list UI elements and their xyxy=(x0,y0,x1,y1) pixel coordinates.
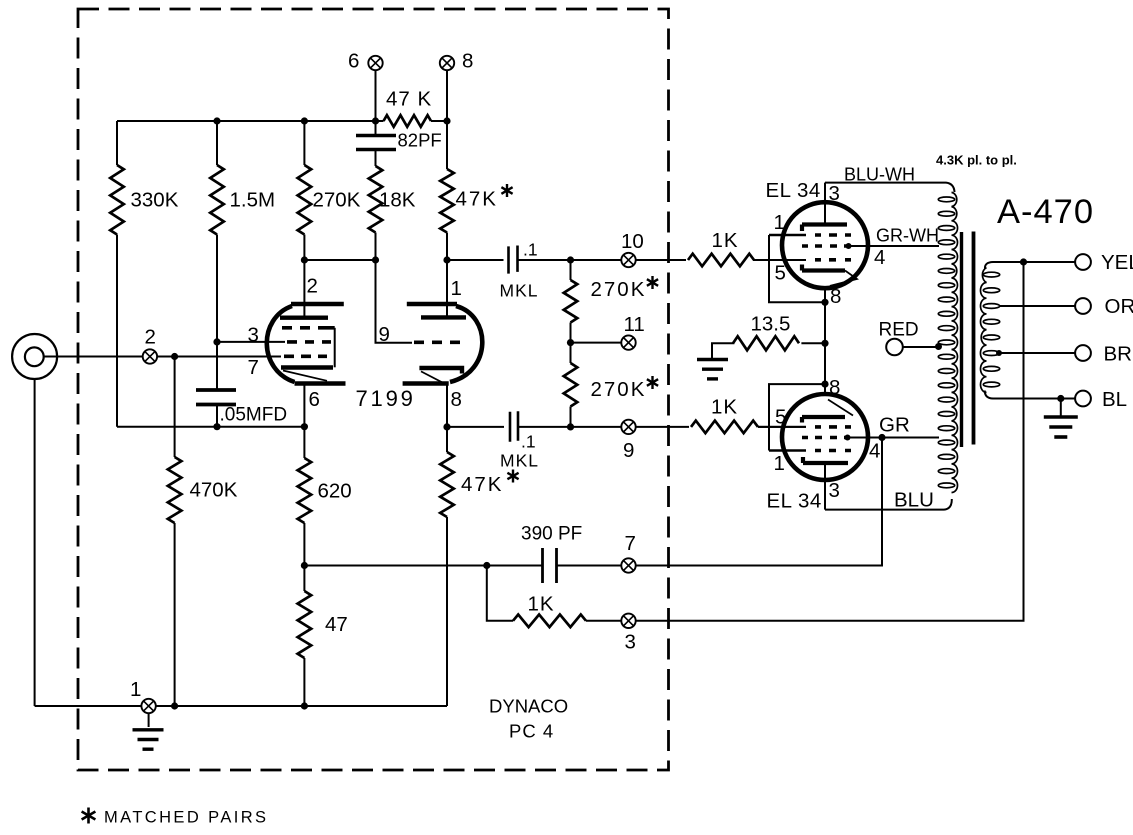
wire ground bus xyxy=(35,705,447,707)
pin 4 junction dot (lower) xyxy=(845,435,851,441)
svg-text:13.5: 13.5 xyxy=(751,313,791,336)
wire plate row: pin 2 lead xyxy=(303,260,305,318)
wire pin 8 lead xyxy=(446,384,448,427)
svg-text:330K: 330K xyxy=(131,189,179,212)
resistor 47K (top) xyxy=(384,115,432,127)
svg-text:MKL: MKL xyxy=(500,281,539,301)
transformer A-470 primary turns xyxy=(938,197,954,202)
junction dot (447.0,121.0) xyxy=(443,117,450,124)
wire EL34 lower pin 3 stem xyxy=(824,463,826,510)
svg-text:MKL: MKL xyxy=(500,451,539,471)
tube 7199 pentode envelope top xyxy=(291,302,344,307)
input jack J1 center pin xyxy=(25,347,44,366)
junction dot (486.8,565.5) xyxy=(483,562,490,569)
wire 270K bottom lead xyxy=(303,235,305,261)
junction dot (304.4,426.7) xyxy=(301,423,308,430)
junction dot (825.0,343.3) xyxy=(821,340,828,347)
tube 7199 pentode grid row 3 xyxy=(284,354,327,358)
svg-text:RED: RED xyxy=(879,320,919,341)
svg-text:BR: BR xyxy=(1104,343,1132,366)
svg-text:620: 620 xyxy=(318,480,352,503)
capacitor 390PF plates xyxy=(543,548,557,583)
junction dot (174.6,356.5) xyxy=(171,353,178,360)
wire 13.5 right lead xyxy=(801,342,825,344)
terminal YE xyxy=(1075,254,1091,270)
svg-text:82PF: 82PF xyxy=(398,130,442,151)
wire 82PF bottom stub xyxy=(375,150,377,167)
capacitor 82PF plates xyxy=(356,136,396,150)
terminal BR xyxy=(1075,345,1091,361)
wire 270K* lower top lead xyxy=(570,343,572,363)
svg-text:1.5M: 1.5M xyxy=(230,189,276,212)
svg-text:9: 9 xyxy=(379,323,390,346)
wire 270K* upper bottom lead xyxy=(570,323,572,343)
resistor 47K* (lower, triode plate load) xyxy=(440,452,454,517)
transformer core xyxy=(960,232,963,447)
junction dot (447.0,426.9) xyxy=(443,423,450,430)
wire 470K top lead xyxy=(174,357,176,458)
svg-text:270K: 270K xyxy=(591,378,647,401)
tube 7199 triode envelope arc xyxy=(450,306,482,382)
star for 270K lower xyxy=(647,376,658,389)
wire EL34 upper pin 1 lead xyxy=(769,234,806,237)
primary center tap dot xyxy=(935,343,942,350)
wire pin 7 lead xyxy=(157,356,281,358)
terminal 8 eyelet xyxy=(440,56,454,70)
tube EL34 upper grid2 dashes xyxy=(802,244,850,248)
svg-text:4: 4 xyxy=(869,440,880,463)
svg-text:4.3K pl. to pl.: 4.3K pl. to pl. xyxy=(936,153,1017,168)
wire input jack shell to ground bus xyxy=(34,379,36,706)
wire pin 9 lead from 18K xyxy=(376,260,413,343)
ground at terminal 1 xyxy=(133,728,164,731)
star for 47K upper xyxy=(501,184,512,197)
resistor 47 xyxy=(298,591,312,658)
svg-text:3: 3 xyxy=(829,479,840,502)
junction dot (570.5,426.9) xyxy=(567,423,574,430)
svg-text:YEL: YEL xyxy=(1101,251,1133,274)
wire EL34 upper pin 8 chain xyxy=(824,288,826,394)
svg-text:8: 8 xyxy=(830,285,841,308)
wire terminal 10 to 1K xyxy=(636,259,686,261)
input jack J1 outer shell xyxy=(12,334,57,379)
wire 82PF top stub xyxy=(375,121,377,136)
resistor 470K xyxy=(168,457,182,523)
wire 270K top lead xyxy=(303,121,305,165)
svg-text:3: 3 xyxy=(625,631,636,654)
bracket EL34 lower pins 1-8 xyxy=(769,384,825,450)
wire RED tap xyxy=(903,346,939,348)
junction dot (375.5,260.0) xyxy=(372,256,379,263)
wire EL34 lower pin 5 lead (into grid1) xyxy=(758,426,806,428)
svg-text:1K: 1K xyxy=(528,593,555,616)
junction dot (375.5,121.0) xyxy=(372,117,379,124)
wire MKL to terminal 10 xyxy=(518,259,622,261)
terminal 11 eyelet xyxy=(621,335,635,349)
resistor 47K* (upper, pin 1 plate load) xyxy=(440,169,454,233)
junction dot (570.5,260.0) xyxy=(567,256,574,263)
terminal 2 eyelet xyxy=(143,349,157,363)
junction dot (304.4,121.0) xyxy=(301,117,308,124)
tube 7199 pentode internal connection xyxy=(334,328,336,368)
wire 390PF to terminal 7 xyxy=(557,565,622,567)
svg-text:A-470: A-470 xyxy=(997,193,1094,231)
svg-text:MATCHED PAIRS: MATCHED PAIRS xyxy=(104,809,268,827)
junction dot (174.6,706.0) xyxy=(171,702,178,709)
wire 1K to terminal 3 xyxy=(586,620,621,622)
svg-text:7: 7 xyxy=(625,532,636,555)
junction dot (217.0,426.7) xyxy=(213,423,220,430)
wire 47K* upper top lead xyxy=(446,121,448,169)
tube 7199 triode grid xyxy=(414,340,460,344)
svg-text:8: 8 xyxy=(462,50,473,73)
tube 7199 pentode envelope arc xyxy=(267,306,295,382)
wire terminal 6 stem xyxy=(375,70,377,121)
wire 47K* lower top lead xyxy=(446,427,448,452)
wire 330K bottom lead to cathode wire xyxy=(116,235,118,427)
wire .05MFD bottom stub xyxy=(216,405,218,427)
capacitor .1 MKL (lower) plates xyxy=(510,411,518,442)
wire 620 top lead xyxy=(303,427,305,458)
svg-text:EL 34: EL 34 xyxy=(766,179,821,202)
wire EL34 lower pin 1 lead xyxy=(769,449,806,452)
tube EL34 lower grid2 dashes xyxy=(802,436,850,440)
svg-text:PC 4: PC 4 xyxy=(509,721,554,742)
wire input jack to terminal 2 xyxy=(44,356,143,358)
wire pin1 node to MKL cap xyxy=(447,259,504,261)
svg-text:4: 4 xyxy=(874,246,885,269)
resistor 1.5M xyxy=(210,165,224,235)
svg-text:11: 11 xyxy=(624,313,645,336)
svg-text:6: 6 xyxy=(348,50,359,73)
wire 1K to EL34 pin 5 xyxy=(753,259,806,261)
wire secondary bottom to BL terminal xyxy=(985,391,1075,399)
svg-text:5: 5 xyxy=(775,262,786,285)
transformer A-470 secondary turns xyxy=(983,272,999,277)
junction dot (882.0,437.5) xyxy=(878,434,885,441)
svg-text:3: 3 xyxy=(829,182,840,205)
svg-text:BL: BL xyxy=(1102,388,1127,411)
ground at BL stub xyxy=(1060,399,1062,416)
wire 1.5M bottom lead to .05MFD xyxy=(216,235,218,391)
wire 270K* lower bottom lead xyxy=(570,407,572,427)
resistor 270K xyxy=(298,165,312,235)
junction dot (304.4,706.0) xyxy=(301,702,308,709)
wire 330K top lead xyxy=(116,121,118,165)
tube EL34 lower grid1 dashes xyxy=(815,425,851,429)
wire pin 3 lead xyxy=(217,341,285,343)
tube 7199 pentode cathode diagonal xyxy=(283,371,327,381)
tube 7199 triode envelope top xyxy=(407,302,457,307)
wire 13.5 left lead xyxy=(712,343,734,359)
wire to terminal 11 xyxy=(571,342,622,344)
wire EL34 upper pin 3 stem xyxy=(824,183,826,225)
tube EL34 upper plate xyxy=(802,225,847,232)
svg-text:2: 2 xyxy=(145,326,156,349)
svg-text:.05MFD: .05MFD xyxy=(220,405,288,426)
capacitor .05MFD plates xyxy=(196,390,236,405)
resistor 1K (lower grid stopper) xyxy=(691,421,758,434)
svg-text:2: 2 xyxy=(307,275,318,298)
svg-text:GR-WH: GR-WH xyxy=(876,226,939,246)
svg-text:47 K: 47 K xyxy=(386,88,432,111)
wire GR-WH (pin 4 to primary tap) xyxy=(849,245,940,247)
svg-text:47K: 47K xyxy=(461,473,503,496)
BR tap dot xyxy=(996,350,1002,356)
terminal 3 eyelet xyxy=(621,614,635,628)
svg-text:8: 8 xyxy=(451,388,462,411)
svg-text:OR: OR xyxy=(1105,295,1133,318)
star for 270K upper xyxy=(647,276,658,289)
wire 1.5M top lead xyxy=(216,121,218,165)
transformer A-470 secondary scallops xyxy=(980,268,986,393)
wire BLU-WH (pin 3 to primary top) xyxy=(825,183,955,192)
tube EL34 lower grid3 dashes xyxy=(815,449,851,453)
tube 7199 triode plate xyxy=(421,315,466,319)
svg-text:390 PF: 390 PF xyxy=(521,524,582,545)
svg-text:1: 1 xyxy=(451,277,462,300)
wire 47 bottom lead xyxy=(303,658,305,706)
svg-text:EL 34: EL 34 xyxy=(767,490,822,513)
wire 470K bottom lead xyxy=(174,523,176,706)
tube 7199 triode cathode diagonal xyxy=(421,371,442,382)
wire 47K* lower bottom lead to bus xyxy=(446,517,448,706)
wire secondary top to YE terminal xyxy=(985,262,1075,269)
svg-text:1: 1 xyxy=(130,678,141,701)
tube EL34 lower plate xyxy=(803,457,848,463)
tube EL34 upper grid1 dashes xyxy=(815,258,851,262)
svg-text:DYNACO: DYNACO xyxy=(489,696,568,717)
ground at 13.5 xyxy=(697,358,728,361)
svg-text:7199: 7199 xyxy=(356,386,416,411)
junction dot (217.0,341.9) xyxy=(213,338,220,345)
wire 47K* upper bottom lead xyxy=(446,233,448,261)
tube EL34 upper envelope xyxy=(782,202,868,288)
wire top bus xyxy=(117,120,447,122)
wire pin8 node to MKL cap xyxy=(447,426,504,428)
svg-text:1K: 1K xyxy=(712,229,739,252)
svg-text:1: 1 xyxy=(774,211,785,234)
junction dot (447.0,260.0) xyxy=(443,256,450,263)
tube 7199 pentode cathode xyxy=(281,365,333,369)
junction dot (304.4,565.5) xyxy=(301,562,308,569)
tube 7199 triode cathode xyxy=(419,368,462,374)
resistor 13.5 xyxy=(733,336,799,350)
resistor 1K (feedback) xyxy=(513,615,586,628)
svg-text:7: 7 xyxy=(248,356,259,379)
wire pin 2 node to pin 9 node xyxy=(304,259,375,261)
wire pin 6 lead xyxy=(303,384,305,427)
svg-text:BLU: BLU xyxy=(894,489,934,512)
svg-text:.1: .1 xyxy=(521,432,536,452)
svg-text:470K: 470K xyxy=(190,479,238,502)
tube EL34 lower envelope xyxy=(782,394,868,480)
terminal 1 eyelet xyxy=(141,699,155,713)
wire cathode row xyxy=(117,426,304,428)
svg-text:GR: GR xyxy=(879,414,910,437)
resistor 270K* (upper) xyxy=(564,280,578,323)
wire 620 bottom lead xyxy=(303,523,305,566)
star for 47K lower xyxy=(507,470,518,483)
svg-text:6: 6 xyxy=(309,388,320,411)
wire 620 node to 390PF xyxy=(304,565,542,567)
wire terminal 9 to 1K xyxy=(636,426,689,428)
svg-text:18K: 18K xyxy=(379,189,416,212)
resistor 1K (upper grid stopper) xyxy=(688,254,754,267)
svg-text:1: 1 xyxy=(774,452,785,475)
terminal RED primary center tap xyxy=(886,339,903,356)
ground at terminal 1 stub xyxy=(148,713,150,727)
junction dot (825.0,384.1) xyxy=(821,381,828,388)
wire pin 1 lead xyxy=(446,260,448,317)
svg-text:47K: 47K xyxy=(456,188,498,211)
wire terminal 7 to GR node xyxy=(636,438,882,566)
tube EL34 lower cathode diagonal xyxy=(828,400,853,416)
tube EL34 upper cathode xyxy=(802,265,845,271)
wire BLU (pin 3 lower to primary bottom) xyxy=(825,499,952,510)
wire 270K* upper top lead xyxy=(570,260,572,280)
tube 7199 pentode envelope bottom xyxy=(295,381,346,386)
wire OR tap xyxy=(1000,305,1076,307)
terminal OR xyxy=(1075,298,1091,314)
svg-text:270K: 270K xyxy=(313,189,361,212)
svg-text:3: 3 xyxy=(248,324,259,347)
tube 7199 pentode grid row 2 (control) xyxy=(287,340,331,344)
tube 7199 pentode grid row 1 (screen) xyxy=(282,326,335,330)
wire 47 top lead xyxy=(303,566,305,592)
svg-text:9: 9 xyxy=(623,439,634,462)
resistor 18K xyxy=(369,166,383,233)
resistor 330K xyxy=(110,165,124,235)
svg-text:5: 5 xyxy=(775,406,786,429)
junction dot (1060.8,398.5) xyxy=(1057,395,1064,402)
junction dot (1023.5,262) xyxy=(1020,258,1027,265)
tube 7199 triode envelope bottom xyxy=(403,381,449,386)
star for matched pairs note xyxy=(82,808,96,824)
terminal 7 eyelet xyxy=(621,558,635,572)
terminal BL xyxy=(1075,391,1091,407)
svg-text:BLU-WH: BLU-WH xyxy=(844,165,915,185)
junction dot (570.5,342.6) xyxy=(567,339,574,346)
resistor 270K* (lower) xyxy=(564,363,578,407)
junction dot (304.4,260.0) xyxy=(301,256,308,263)
svg-text:1K: 1K xyxy=(711,396,738,419)
wire MKL to terminal 9 xyxy=(518,426,621,428)
pin 4 junction dot (upper) xyxy=(846,243,852,249)
resistor 620 xyxy=(298,458,312,523)
tube EL34 lower cathode xyxy=(802,417,845,423)
svg-text:47: 47 xyxy=(325,613,348,636)
wire GR (pin 4 lower to primary tap) xyxy=(848,437,940,439)
transformer A-470 primary scallops xyxy=(952,192,958,492)
tube EL34 upper cathode diagonal xyxy=(830,271,857,286)
ground at BL xyxy=(1044,415,1078,419)
wire terminal 3 to 16-ohm tap xyxy=(636,262,1024,621)
wire terminal 8 stem xyxy=(446,70,448,121)
terminal 9 eyelet xyxy=(621,420,635,434)
wire BR tap xyxy=(1000,352,1076,354)
terminal 6 eyelet xyxy=(368,56,382,70)
svg-text:.1: .1 xyxy=(523,240,538,260)
svg-text:10: 10 xyxy=(621,230,644,253)
wire 1K to EL34 pin 5 (lower) xyxy=(758,426,806,428)
wire 18K bottom lead xyxy=(375,233,377,261)
bracket EL34 upper pins 1-8 xyxy=(769,235,825,302)
junction dot (825.0,302.3) xyxy=(821,299,828,306)
capacitor .1 MKL (upper) plates xyxy=(509,246,518,274)
svg-text:270K: 270K xyxy=(591,278,647,301)
tube 7199 pentode plate xyxy=(280,316,328,320)
junction dot (217.0,121.0) xyxy=(213,117,220,124)
wire junction drop to 1K xyxy=(487,566,513,621)
dashed border of DYNACO PC 4 board xyxy=(78,9,669,770)
tube EL34 upper grid3 dashes xyxy=(815,233,851,237)
terminal 10 eyelet xyxy=(621,253,635,267)
